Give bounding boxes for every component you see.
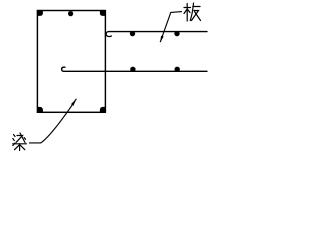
rebar dot top-left bbox=[37, 11, 43, 16]
arrowhead of beam leader bbox=[71, 99, 76, 106]
rebar dot bottom-right bbox=[100, 107, 106, 112]
arrowhead of slab leader bbox=[160, 36, 163, 43]
leader line for slab label bbox=[160, 12, 182, 43]
label 板 (slab) drawn strokes bbox=[184, 3, 201, 21]
slab top rebar line with 180-degree hook bbox=[106, 32, 207, 37]
distribution bar dot 2 on bottom rebar bbox=[175, 67, 180, 72]
rebar dot bottom-left bbox=[37, 107, 43, 112]
leader line for beam label bbox=[29, 99, 76, 143]
distribution bar dot 1 on top rebar bbox=[130, 31, 135, 36]
distribution bar dot 2 on top rebar bbox=[174, 31, 179, 36]
slab bottom rebar line with 180-degree hook bbox=[62, 67, 207, 71]
rebar dot top-right bbox=[100, 11, 106, 16]
label 梁 (beam) drawn strokes bbox=[13, 133, 27, 151]
distribution bar dot 1 on bottom rebar bbox=[130, 67, 135, 72]
rebar dot top-middle bbox=[68, 11, 73, 16]
beam outline (rectangle) bbox=[37, 11, 105, 113]
